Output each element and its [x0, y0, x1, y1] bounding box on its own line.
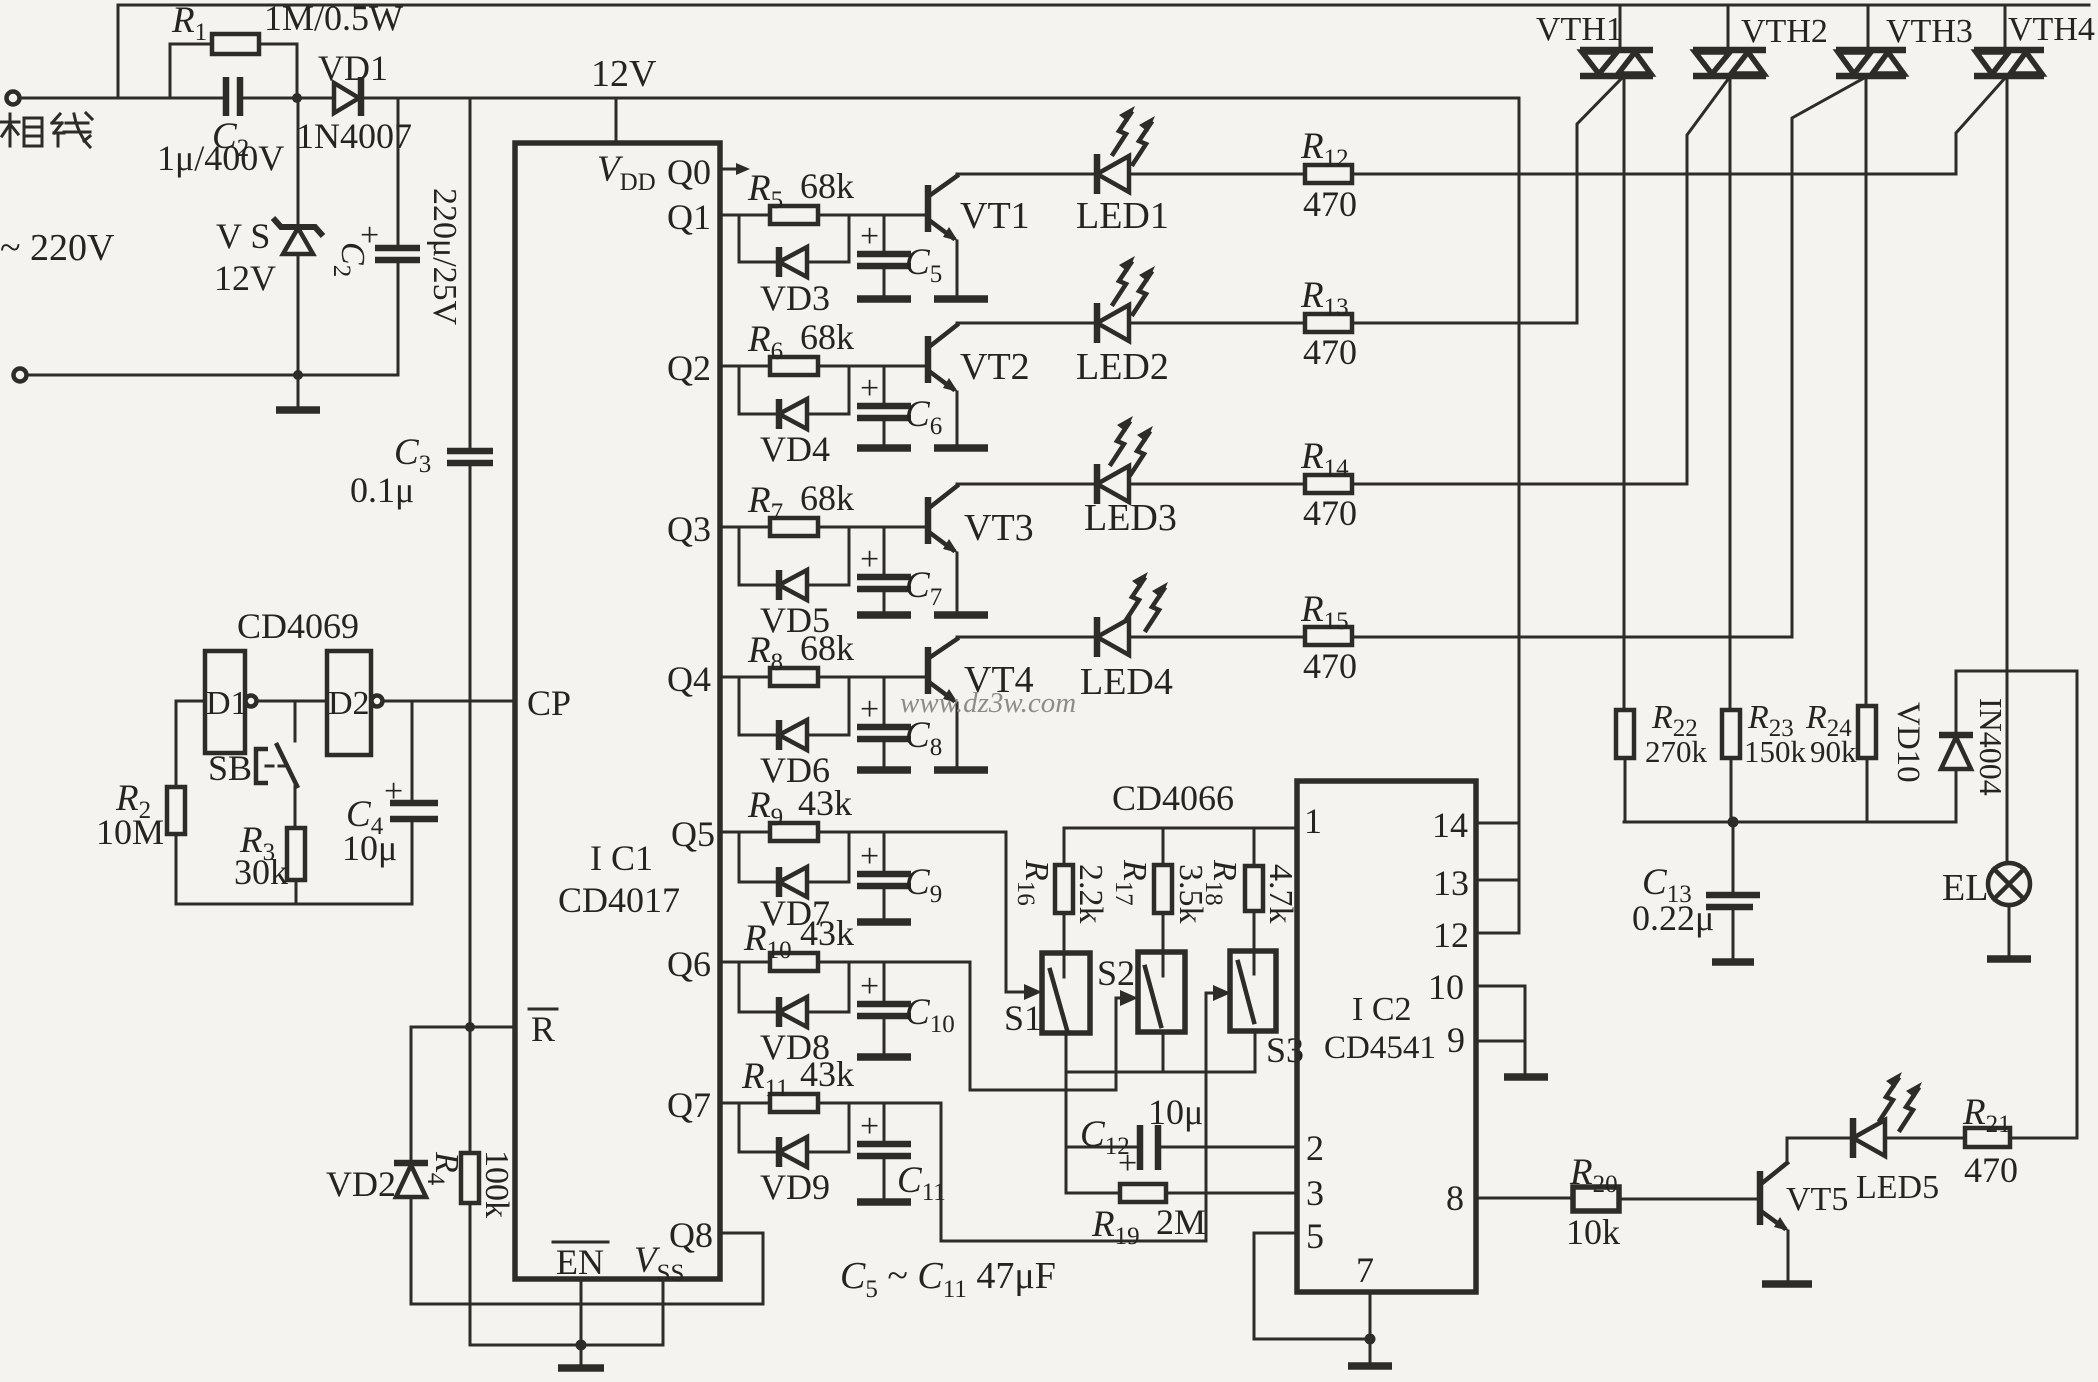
- node 相线 terminal: [7, 92, 20, 105]
- svg-text:C10: C10: [905, 992, 955, 1038]
- svg-text:2M: 2M: [1156, 1202, 1206, 1242]
- resistor R19 2M: [1066, 1192, 1297, 1195]
- led LED4: [957, 636, 1305, 639]
- svg-text:470: 470: [1964, 1150, 2018, 1190]
- wire 220V live to 12V rail: [20, 97, 1519, 100]
- svg-text:+: +: [860, 218, 879, 255]
- wire Q6 to S2 control: [970, 962, 1130, 1090]
- ground C11: [857, 1198, 911, 1206]
- resistor R23 150k: [1722, 710, 1740, 758]
- svg-text:VD3: VD3: [760, 278, 830, 318]
- wire Q7 to S3 control: [941, 993, 1223, 1241]
- svg-text:12V: 12V: [591, 53, 657, 95]
- switch S2: [1138, 952, 1185, 1032]
- svg-text:S2: S2: [1097, 953, 1135, 993]
- svg-text:1M/0.5W: 1M/0.5W: [264, 0, 403, 38]
- resistor R6 68k: [770, 357, 818, 375]
- capacitor C11: [883, 1103, 886, 1200]
- ground power: [297, 375, 300, 408]
- wire Q4 row: [720, 676, 925, 679]
- svg-text:EN: EN: [556, 1242, 604, 1282]
- wire Q1 row: [720, 214, 925, 217]
- svg-text:R18: R18: [1200, 859, 1243, 906]
- diode VD7: [739, 832, 849, 882]
- svg-text:VTH3: VTH3: [1886, 13, 1973, 50]
- ground EL: [2008, 905, 2011, 957]
- wire LED1 row to VTH4 gate: [1352, 78, 2005, 174]
- svg-text:0.22μ: 0.22μ: [1632, 898, 1714, 938]
- svg-text:R: R: [531, 1009, 555, 1049]
- svg-text:LED4: LED4: [1080, 661, 1173, 703]
- svg-text:8: 8: [1446, 1178, 1464, 1218]
- svg-text:100k: 100k: [478, 1150, 515, 1218]
- svg-text:~ 220V: ~ 220V: [0, 227, 115, 269]
- svg-text:VDD: VDD: [597, 149, 656, 196]
- inverter D2: [327, 651, 371, 755]
- svg-text:R5: R5: [747, 168, 783, 214]
- led LED1: [957, 173, 1305, 176]
- switch S1: [1042, 953, 1090, 1033]
- triac VTH2: [1727, 5, 1730, 50]
- capacitor C6: [883, 366, 886, 446]
- svg-text:90k: 90k: [1810, 734, 1857, 769]
- svg-text:+: +: [860, 838, 879, 875]
- diode VD10 IN4004: [1955, 671, 1958, 822]
- resistor R10 43k: [770, 953, 818, 971]
- svg-text:12: 12: [1433, 915, 1469, 955]
- svg-text:4.7k: 4.7k: [1262, 864, 1299, 924]
- svg-text:R12: R12: [1300, 126, 1349, 172]
- svg-text:9: 9: [1447, 1020, 1465, 1060]
- resistor R22 270k: [1616, 710, 1634, 758]
- svg-text:0.1μ: 0.1μ: [350, 470, 414, 510]
- capacitor C2 (series): [226, 77, 240, 116]
- resistor R16 2.2k: [1063, 828, 1066, 977]
- capacitor C4 10u: [411, 701, 414, 904]
- capacitor C7: [883, 527, 886, 613]
- svg-text:Q7: Q7: [667, 1085, 711, 1125]
- svg-text:IN4004: IN4004: [1973, 698, 2009, 796]
- svg-text:LED2: LED2: [1076, 346, 1169, 388]
- wire oscillator bottom: [176, 903, 412, 906]
- ground C5: [857, 295, 911, 303]
- transistor VT5: [1757, 1171, 1764, 1225]
- svg-text:+: +: [860, 691, 879, 728]
- svg-text:+: +: [860, 968, 879, 1005]
- svg-text:10: 10: [1428, 967, 1464, 1007]
- wire CD4066 supply rail to pin 1: [1064, 827, 1297, 830]
- wire pin 5 and 7 to ground: [1254, 1233, 1370, 1364]
- svg-text:Q3: Q3: [667, 509, 711, 549]
- capacitor C5: [883, 215, 886, 297]
- svg-text:470: 470: [1303, 184, 1357, 224]
- node reset junction: [465, 1022, 475, 1032]
- wire VDD stub: [615, 98, 618, 143]
- node junction VS bottom: [293, 370, 303, 380]
- ground C9: [857, 918, 911, 926]
- ground C13: [1712, 958, 1754, 966]
- svg-text:10k: 10k: [1566, 1212, 1620, 1252]
- svg-text:1N4007: 1N4007: [296, 116, 412, 156]
- svg-text:CD4069: CD4069: [237, 606, 359, 646]
- svg-text:470: 470: [1303, 332, 1357, 372]
- wire LED2 row to VTH1 gate: [1352, 78, 1622, 323]
- svg-text:3: 3: [1306, 1173, 1324, 1213]
- triac VTH4: [2004, 5, 2007, 50]
- wire Q2 row: [720, 365, 925, 368]
- svg-text:VTH1: VTH1: [1536, 11, 1623, 48]
- svg-text:Q4: Q4: [667, 659, 711, 699]
- svg-text:CD4066: CD4066: [1112, 778, 1234, 818]
- wire LED3 row to VTH2 gate: [1352, 78, 1729, 484]
- svg-text:13: 13: [1433, 863, 1469, 903]
- svg-text:C6: C6: [905, 394, 942, 440]
- wire pins 10 9 to ground: [1476, 986, 1525, 1075]
- svg-text:C12: C12: [1080, 1114, 1130, 1160]
- resistor R20 10k: [1573, 1187, 1619, 1211]
- svg-text:www.dz3w.com: www.dz3w.com: [900, 687, 1076, 719]
- svg-text:68k: 68k: [800, 317, 854, 357]
- diode VD1: [334, 83, 359, 113]
- diode VD3: [739, 215, 849, 262]
- svg-text:Q1: Q1: [667, 197, 711, 237]
- svg-text:S1: S1: [1004, 998, 1042, 1038]
- transistor VT4: [925, 647, 932, 694]
- wire EN VSS ground bus: [470, 1279, 663, 1345]
- svg-text:R13: R13: [1300, 275, 1349, 321]
- resistor R4 100k: [469, 1027, 472, 1345]
- capacitor C2 electrolytic 220u/25V: [397, 98, 400, 375]
- svg-text:V S: V S: [216, 216, 270, 256]
- wire Q5 to S1 control: [1006, 832, 1034, 992]
- svg-text:Q2: Q2: [667, 348, 711, 388]
- wire Q5 row: [720, 831, 1006, 834]
- lamp EL: [1988, 863, 2030, 905]
- triac VTH1: [1619, 5, 1622, 50]
- svg-text:D2: D2: [328, 685, 370, 722]
- svg-text:C7: C7: [905, 565, 942, 611]
- node ground junction: [576, 1340, 587, 1351]
- resistor R21 470: [1965, 1128, 2010, 1147]
- resistor R13 470: [1305, 314, 1352, 332]
- svg-text:I C1: I C1: [590, 838, 653, 878]
- svg-text:1: 1: [1304, 801, 1322, 841]
- svg-text:R9: R9: [747, 785, 783, 831]
- ground C10: [857, 1053, 911, 1061]
- svg-text:C8: C8: [905, 715, 942, 761]
- svg-text:VD2: VD2: [326, 1164, 396, 1204]
- wire R21 up to VD10: [1956, 671, 2077, 1138]
- wire 12V to pins 14 13 12: [1476, 98, 1519, 933]
- svg-text:30k: 30k: [234, 852, 288, 892]
- diode VD6: [739, 677, 849, 735]
- svg-text:R1: R1: [171, 0, 207, 46]
- svg-text:7: 7: [1356, 1250, 1374, 1290]
- svg-text:R19: R19: [1091, 1204, 1140, 1250]
- diode VD9: [739, 1103, 849, 1152]
- transistor VT3: [925, 497, 932, 544]
- op-amp IC1 CD4017 box: [515, 143, 720, 1279]
- wire switch bottoms rail: [1066, 1031, 1255, 1193]
- svg-text:68k: 68k: [800, 628, 854, 668]
- node junction VD1 anode: [292, 93, 302, 103]
- diode VD5: [739, 527, 849, 585]
- svg-text:I C2: I C2: [1352, 991, 1412, 1028]
- op-amp IC2 CD4541 box: [1297, 781, 1476, 1292]
- svg-text:Q0: Q0: [667, 152, 711, 192]
- resistor R12 470: [1305, 165, 1352, 183]
- svg-text:VD10: VD10: [1890, 702, 1926, 783]
- wire LED4 row to VTH3 gate: [1352, 78, 1864, 637]
- wire Q3 row: [720, 526, 925, 529]
- svg-text:470: 470: [1303, 646, 1357, 686]
- resistor R14 470: [1305, 475, 1352, 493]
- switch S3: [1230, 951, 1276, 1031]
- ground C6: [857, 444, 911, 452]
- ground C7: [857, 611, 911, 619]
- svg-text:SB: SB: [208, 748, 252, 788]
- svg-text:470: 470: [1303, 493, 1357, 533]
- resistor R24 90k: [1858, 706, 1876, 758]
- svg-text:D1: D1: [206, 685, 248, 722]
- resistor R7 68k: [770, 518, 818, 536]
- svg-text:R7: R7: [747, 480, 783, 526]
- svg-text:150k: 150k: [1744, 734, 1807, 769]
- wire Q8 feedback: [411, 1233, 763, 1304]
- ground C8: [857, 766, 911, 774]
- svg-text:VD1: VD1: [318, 48, 388, 88]
- node pin7 ground junction: [1365, 1334, 1376, 1345]
- svg-text:+: +: [860, 541, 879, 578]
- transistor VT1: [925, 185, 932, 232]
- svg-text:C2: C2: [328, 242, 371, 277]
- svg-text:VD9: VD9: [760, 1167, 830, 1207]
- svg-text:LED1: LED1: [1076, 195, 1169, 237]
- svg-text:68k: 68k: [800, 166, 854, 206]
- wire D1 to D2: [257, 700, 327, 703]
- svg-text:R15: R15: [1300, 589, 1349, 635]
- svg-text:1μ/400V: 1μ/400V: [157, 138, 284, 178]
- resistor R18 4.7k: [1253, 828, 1256, 974]
- svg-text:14: 14: [1432, 805, 1468, 845]
- wire D1 input: [176, 700, 205, 703]
- svg-text:2.2k: 2.2k: [1072, 864, 1109, 924]
- switch SB: [294, 701, 297, 828]
- resistor R2 10M: [175, 701, 178, 904]
- capacitor C10: [883, 962, 886, 1055]
- svg-text:R14: R14: [1300, 436, 1349, 482]
- svg-text:10μ: 10μ: [1148, 1092, 1203, 1132]
- svg-text:CP: CP: [527, 683, 571, 723]
- resistor R15 470: [1305, 627, 1352, 645]
- svg-text:43k: 43k: [798, 783, 852, 823]
- svg-text:5: 5: [1306, 1216, 1324, 1256]
- svg-text:VT5: VT5: [1786, 1181, 1848, 1218]
- transistor VT2: [925, 336, 932, 383]
- wire RC sense rail: [1624, 821, 1956, 824]
- resistor R11 43k: [770, 1094, 818, 1112]
- led LED3: [957, 483, 1305, 486]
- wire R20 to VT5 base: [1619, 1198, 1758, 1201]
- resistor R8 68k: [770, 668, 818, 686]
- svg-text:Q6: Q6: [667, 944, 711, 984]
- capacitor C13 0.22u: [1732, 822, 1735, 960]
- resistor R1: [170, 44, 297, 98]
- svg-text:VTH2: VTH2: [1741, 13, 1828, 50]
- svg-text:68k: 68k: [800, 478, 854, 518]
- svg-text:R6: R6: [747, 319, 783, 365]
- svg-text:CD4541: CD4541: [1324, 1030, 1436, 1066]
- ground pins 9 10: [1504, 1073, 1548, 1081]
- ground IC1: [580, 1345, 583, 1366]
- svg-text:LED5: LED5: [1856, 1169, 1939, 1206]
- capacitor C3 0.1u: [469, 98, 472, 1025]
- svg-text:R17: R17: [1110, 859, 1153, 906]
- led LED2: [957, 322, 1305, 325]
- svg-text:C5: C5: [905, 242, 942, 288]
- svg-text:Q8: Q8: [669, 1215, 713, 1255]
- wire top mains rail: [118, 5, 2089, 98]
- label 相线 (hand strokes): [1, 113, 92, 147]
- svg-text:VD4: VD4: [760, 429, 830, 469]
- svg-text:12V: 12V: [214, 258, 276, 298]
- svg-text:C9: C9: [905, 862, 942, 908]
- capacitor C9: [883, 832, 886, 920]
- svg-text:CD4017: CD4017: [558, 880, 680, 920]
- svg-text:43k: 43k: [800, 913, 854, 953]
- svg-text:+: +: [860, 370, 879, 407]
- svg-text:VT1: VT1: [960, 195, 1030, 237]
- diode VD8: [739, 962, 849, 1012]
- svg-text:270k: 270k: [1645, 734, 1708, 769]
- svg-text:2: 2: [1306, 1128, 1324, 1168]
- resistor R17 3.5k: [1162, 828, 1165, 976]
- wire Q6 row: [720, 961, 970, 964]
- svg-text:43k: 43k: [800, 1054, 854, 1094]
- svg-text:VT2: VT2: [960, 346, 1030, 388]
- svg-text:C5 ~ C11 47μF: C5 ~ C11 47μF: [840, 1255, 1056, 1303]
- diode VD2: [410, 1027, 413, 1304]
- svg-text:R20: R20: [1569, 1152, 1618, 1198]
- svg-text:EL: EL: [1942, 867, 1988, 909]
- svg-text:R21: R21: [1962, 1092, 2011, 1138]
- resistor R9 43k: [770, 823, 818, 841]
- svg-text:10μ: 10μ: [342, 828, 397, 868]
- wire R reset input: [411, 1026, 515, 1029]
- svg-text:LED3: LED3: [1084, 497, 1177, 539]
- zener VS: [297, 98, 300, 375]
- svg-text:+: +: [860, 1108, 879, 1145]
- svg-text:R4: R4: [422, 1151, 465, 1186]
- wire Q7 row: [720, 1102, 941, 1105]
- resistor R5 68k: [770, 206, 818, 224]
- svg-text:VT3: VT3: [964, 507, 1034, 549]
- svg-text:VTH4: VTH4: [2008, 11, 2095, 48]
- svg-text:10M: 10M: [96, 812, 164, 852]
- node C13 junction: [1728, 817, 1739, 828]
- capacitor C8: [883, 677, 886, 768]
- wire neutral bottom: [27, 374, 398, 377]
- inverter D1: [205, 651, 245, 753]
- svg-text:R16: R16: [1012, 859, 1055, 906]
- ground IC2: [1348, 1362, 1392, 1370]
- wire pin 8 output: [1476, 1197, 1573, 1200]
- svg-text:220μ/25V: 220μ/25V: [426, 188, 463, 326]
- triac VTH3: [1867, 5, 1870, 50]
- capacitor C12 10u: [1066, 1146, 1297, 1149]
- svg-text:Q5: Q5: [671, 814, 715, 854]
- node neutral terminal: [14, 369, 27, 382]
- svg-text:+: +: [384, 773, 403, 810]
- diode VD4: [739, 366, 849, 414]
- resistor R3 30k: [287, 828, 305, 880]
- wire D2 to CP: [383, 700, 515, 703]
- led LED5: [1787, 1137, 1965, 1140]
